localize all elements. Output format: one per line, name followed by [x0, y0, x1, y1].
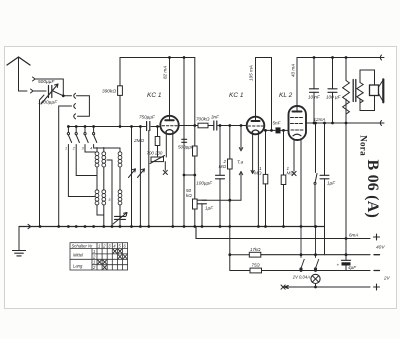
svg-text:2MΩ: 2MΩ [133, 138, 144, 143]
svg-text:4: 4 [90, 147, 92, 151]
svg-text:KC 1: KC 1 [147, 92, 162, 99]
svg-text:2V 0,04A: 2V 0,04A [292, 275, 310, 280]
svg-text:kΩ: kΩ [186, 193, 192, 198]
svg-text:2: 2 [72, 147, 75, 151]
svg-text:Lang: Lang [73, 264, 83, 269]
svg-text:40V: 40V [376, 245, 385, 251]
svg-text:100 µF: 100 µF [326, 95, 342, 100]
svg-text:B 06 (A): B 06 (A) [364, 160, 381, 218]
svg-text:500µµF: 500µµF [38, 79, 56, 85]
svg-text:KL 2: KL 2 [279, 92, 293, 99]
svg-text:3: 3 [82, 147, 84, 151]
svg-text:2V: 2V [383, 276, 391, 281]
svg-text:82 mA: 82 mA [163, 66, 168, 79]
svg-text:12mA: 12mA [314, 117, 326, 122]
svg-text:+: + [337, 263, 340, 268]
svg-text:500µµF: 500µµF [178, 145, 195, 150]
svg-text:5: 5 [109, 198, 111, 202]
svg-text:700 200: 700 200 [147, 151, 163, 156]
svg-text:750µµF: 750µµF [139, 115, 156, 120]
svg-text:75Ω: 75Ω [252, 263, 261, 268]
svg-text:Nora: Nora [359, 135, 369, 156]
svg-text:4µF: 4µF [348, 265, 357, 270]
svg-text:Mittel: Mittel [73, 253, 84, 258]
svg-text:1: 1 [93, 249, 95, 254]
svg-text:T.a: T.a [237, 160, 244, 165]
svg-text:390kΩ: 390kΩ [102, 89, 116, 95]
svg-text:5nF: 5nF [273, 121, 282, 126]
svg-text:MΩ: MΩ [219, 164, 227, 169]
svg-text:10 nF: 10 nF [308, 95, 321, 100]
svg-text:KC 1: KC 1 [229, 92, 244, 99]
svg-text:1µF: 1µF [205, 206, 214, 211]
svg-text:1400µµF: 1400µµF [38, 100, 58, 106]
svg-text:MΩ: MΩ [287, 171, 295, 176]
svg-text:43 mA: 43 mA [291, 64, 296, 77]
svg-text:1: 1 [65, 147, 67, 151]
svg-text:Schalter Nr: Schalter Nr [72, 243, 94, 248]
svg-text:1: 1 [93, 260, 95, 265]
svg-text:1µF: 1µF [327, 181, 336, 186]
svg-text:700kΩ: 700kΩ [196, 117, 210, 122]
svg-text:MΩ: MΩ [254, 171, 262, 176]
svg-text:100µµF: 100µµF [196, 181, 213, 186]
svg-text:3nF: 3nF [211, 115, 220, 120]
svg-text:1: 1 [98, 243, 100, 248]
svg-text:6mA: 6mA [349, 233, 358, 238]
svg-text:17kΩ: 17kΩ [250, 247, 261, 252]
svg-text:195 mA: 195 mA [249, 65, 254, 81]
